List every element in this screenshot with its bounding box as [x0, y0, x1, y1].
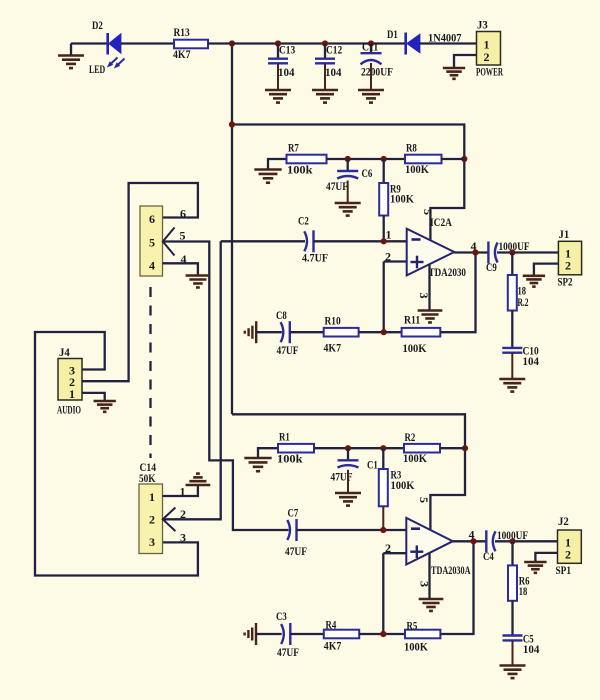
wire R6 to C5 — [511, 601, 513, 636]
op-amp U upper TDA2030 — [407, 229, 455, 276]
capacitor C9 — [487, 242, 489, 264]
wire C2 input — [221, 240, 305, 242]
ground under C11 — [358, 90, 384, 103]
svg-text:R7: R7 — [288, 141, 299, 155]
svg-text:2: 2 — [565, 548, 571, 562]
wire to R6 — [511, 541, 513, 565]
svg-text:C7: C7 — [288, 506, 299, 520]
wire C11 to ground — [370, 63, 372, 90]
resistor R.2 — [508, 275, 517, 311]
wire R13 to rail junction — [208, 42, 232, 44]
resistor R5 — [405, 630, 440, 639]
svg-text:4K7: 4K7 — [324, 341, 342, 355]
ground at J4 — [94, 401, 116, 412]
svg-text:C2: C2 — [298, 214, 309, 228]
ground at J2 — [524, 562, 546, 573]
svg-text:3: 3 — [418, 581, 432, 587]
ground under C5 — [500, 666, 526, 679]
node R2 supply junction — [462, 445, 468, 451]
node C6 tap — [345, 156, 351, 162]
wire C5 to ground — [512, 640, 514, 665]
ground at pot pin4 — [186, 276, 211, 288]
wire R4 to R5 — [359, 633, 405, 635]
svg-text:4: 4 — [149, 259, 155, 273]
svg-text:3: 3 — [417, 293, 431, 299]
wiper arrow lower — [163, 508, 176, 532]
wire pin 3 to ground — [428, 264, 430, 310]
svg-text:D1: D1 — [387, 27, 398, 41]
capacitor C2 — [312, 230, 314, 252]
node top rail junction — [229, 40, 235, 46]
svg-text:1: 1 — [69, 387, 75, 401]
svg-text:2200UF: 2200UF — [361, 65, 393, 79]
wire R7 to R8 — [327, 158, 406, 160]
svg-text:6: 6 — [180, 207, 186, 221]
svg-text:R.2: R.2 — [518, 295, 529, 309]
svg-text:R11: R11 — [404, 313, 420, 327]
svg-text:2: 2 — [565, 259, 571, 273]
svg-text:J1: J1 — [559, 227, 570, 241]
wire D1 to J3 pin1 — [420, 42, 477, 44]
wire C8 to R10 — [290, 331, 324, 333]
potentiometer upper section — [140, 206, 163, 276]
svg-text:LED: LED — [89, 62, 105, 76]
wire supply bus — [231, 44, 233, 415]
capacitor C1 — [347, 448, 349, 460]
node R9 tap — [381, 156, 387, 162]
svg-text:5: 5 — [149, 236, 155, 250]
svg-text:100k: 100k — [287, 163, 313, 177]
node zobel tap lower — [509, 538, 515, 544]
wire R3 to pin1 node — [382, 506, 384, 530]
svg-text:47UF: 47UF — [285, 544, 307, 558]
wire J4 pin3 loop — [35, 332, 198, 576]
wire output pin 4 upper — [454, 251, 488, 253]
node C13 tap — [275, 40, 281, 46]
svg-text:1: 1 — [180, 485, 186, 499]
capacitor C3 — [289, 623, 291, 645]
svg-text:104: 104 — [523, 642, 540, 656]
ground at C8 — [245, 321, 256, 343]
wire pot pin4 to ground — [163, 263, 198, 275]
wire C10 to ground — [511, 353, 513, 379]
wire LED to R13 — [121, 42, 174, 44]
svg-text:47UF: 47UF — [277, 343, 299, 357]
wire pin 3 to ground lower — [428, 554, 430, 599]
svg-text:4K7: 4K7 — [173, 47, 191, 61]
dashed pot link — [149, 287, 151, 458]
wire lower supply rail — [232, 414, 465, 529]
potentiometer lower section — [139, 484, 163, 554]
svg-text:104: 104 — [325, 65, 342, 79]
svg-text:2: 2 — [385, 250, 391, 264]
wire J2 pin2 to ground — [535, 553, 557, 562]
svg-text:C1: C1 — [367, 458, 378, 472]
ground under C1 — [335, 493, 361, 506]
ground at C3 — [245, 623, 256, 645]
wire C12 to ground — [324, 63, 326, 89]
capacitor C11 — [370, 44, 372, 53]
svg-text:C4: C4 — [483, 549, 494, 563]
svg-text:47UF: 47UF — [277, 645, 299, 659]
LED arrows — [110, 58, 118, 66]
svg-text:J3: J3 — [477, 18, 488, 32]
wire to R.2 — [511, 253, 513, 276]
svg-text:R10: R10 — [325, 314, 341, 328]
wire C1 to ground — [347, 470, 349, 493]
diode D2 LED — [106, 33, 109, 55]
wiper arrow upper — [163, 228, 175, 256]
node output lower — [470, 538, 476, 544]
wire R1 to ground — [258, 448, 278, 457]
svg-text:SP2: SP2 — [558, 275, 573, 289]
svg-text:C12: C12 — [326, 43, 342, 57]
svg-text:AUDIO: AUDIO — [57, 403, 81, 417]
svg-text:C11: C11 — [362, 40, 378, 54]
svg-text:TDA2030A: TDA2030A — [431, 563, 471, 577]
wire R2 to supply — [440, 447, 465, 449]
wire R8 to supply — [442, 158, 465, 160]
wire wiper upper to C7 — [163, 242, 289, 531]
svg-text:100K: 100K — [404, 640, 429, 654]
resistor R1 — [278, 444, 314, 453]
node zobel tap upper — [509, 249, 515, 255]
wire R.2 to C10 — [511, 311, 513, 348]
wire ground to LED D2 — [71, 42, 107, 44]
wire J4 pin1 to ground — [82, 393, 105, 401]
node C1 tap — [345, 445, 351, 451]
capacitor C10 — [502, 347, 522, 349]
wire pot pin1 to ground — [163, 486, 198, 497]
wire pin 2 lower — [383, 552, 406, 554]
svg-text:2: 2 — [385, 541, 391, 555]
op-amp U lower TDA2030A — [406, 518, 453, 565]
wire ground to C8 — [256, 331, 282, 333]
svg-text:100K: 100K — [391, 478, 416, 492]
wire R11 to output — [440, 253, 475, 333]
svg-text:C8: C8 — [276, 308, 287, 322]
node pin1 R9 junction — [381, 238, 387, 244]
svg-text:100K: 100K — [390, 192, 415, 206]
ground at J3 — [443, 68, 465, 79]
svg-text:R13: R13 — [174, 25, 190, 39]
svg-text:47UF: 47UF — [326, 179, 348, 193]
resistor R6 — [508, 565, 517, 600]
node bus upper rail junction — [229, 121, 235, 127]
wire output pin 4 lower — [453, 540, 487, 542]
svg-text:2: 2 — [484, 50, 490, 64]
ground at pot pin1 inverted — [186, 474, 211, 485]
resistor R10 — [324, 328, 359, 337]
wire top rail to D1 — [232, 42, 406, 44]
ground under C12 — [312, 90, 338, 103]
node pin1 R3 junction — [380, 527, 386, 533]
wire J1 pin2 to ground — [534, 264, 559, 276]
capacitor C4 — [485, 530, 487, 552]
wire C7 to pin 1 — [297, 529, 407, 531]
diode D1 1N4007 — [404, 33, 407, 55]
capacitor C7 — [295, 519, 297, 541]
resistor R13 — [174, 40, 208, 49]
svg-text:4.7UF: 4.7UF — [302, 251, 328, 265]
connector J3 — [477, 32, 501, 66]
node output upper — [472, 249, 478, 255]
svg-text:C9: C9 — [486, 260, 497, 274]
svg-text:J4: J4 — [59, 345, 70, 359]
resistor R7 — [287, 155, 327, 164]
ground at pin 3 upper — [418, 311, 443, 323]
connector J4 — [58, 359, 82, 401]
wire R5 to output — [440, 541, 473, 634]
capacitor C6 — [347, 159, 349, 171]
node R3 tap — [380, 445, 386, 451]
node R8 supply junction — [461, 156, 467, 162]
svg-text:R4: R4 — [326, 618, 337, 632]
resistor R3 — [382, 448, 384, 469]
ground left of R7 — [254, 170, 281, 183]
wire upper supply rail — [232, 125, 464, 241]
svg-text:R2: R2 — [405, 430, 416, 444]
wire R9 to pin1 node — [383, 216, 385, 242]
capacitor C8 — [289, 321, 291, 343]
capacitor C12 — [324, 44, 326, 59]
connector J2 — [558, 530, 582, 563]
svg-text:5: 5 — [417, 497, 431, 503]
svg-text:R8: R8 — [406, 141, 417, 155]
wire C6 to ground — [347, 181, 349, 203]
connector J1 — [558, 241, 581, 274]
svg-text:C3: C3 — [276, 609, 287, 623]
svg-text:1: 1 — [386, 228, 392, 242]
wire J3 pin2 to ground — [454, 55, 477, 68]
resistor R9 — [383, 159, 385, 183]
svg-text:SP1: SP1 — [556, 563, 572, 577]
svg-text:2: 2 — [149, 513, 155, 527]
node feedback junction lower — [380, 631, 386, 637]
wire pin 2 upper — [384, 260, 407, 262]
wire pin2 to feedback — [383, 262, 385, 333]
wire C13 to ground — [277, 63, 279, 89]
node C11 tap — [368, 40, 374, 46]
svg-text:C6: C6 — [362, 166, 373, 180]
svg-text:100K: 100K — [405, 162, 430, 176]
svg-text:100K: 100K — [403, 341, 428, 355]
svg-text:R5: R5 — [407, 619, 418, 633]
wire C9 to J1 — [497, 251, 558, 253]
wire ground to C3 — [256, 633, 282, 635]
svg-text:4K7: 4K7 — [324, 639, 342, 653]
svg-text:100k: 100k — [277, 452, 303, 466]
ground under C10 — [499, 379, 525, 392]
svg-text:3: 3 — [180, 531, 186, 545]
svg-text:R1: R1 — [279, 430, 290, 444]
svg-text:1: 1 — [149, 490, 155, 504]
wire wiper lower to C2 — [163, 241, 221, 519]
node feedback junction — [381, 329, 387, 335]
svg-text:104: 104 — [278, 65, 295, 79]
ground left of R1 — [244, 458, 271, 471]
wire R10 to R11 — [359, 331, 402, 333]
resistor R11 — [402, 328, 441, 337]
resistor R8 — [405, 155, 442, 164]
ground under C13 — [265, 90, 291, 103]
node C12 tap — [322, 40, 328, 46]
ground under C6 — [335, 203, 361, 216]
svg-text:3: 3 — [149, 535, 155, 549]
resistor R4 — [324, 630, 359, 639]
svg-text:IC2A: IC2A — [430, 215, 452, 229]
svg-text:100K: 100K — [403, 451, 428, 465]
svg-text:TDA2030: TDA2030 — [429, 265, 467, 279]
wire J4 pin2 loop — [82, 183, 198, 381]
ground at pin 3 lower — [419, 599, 444, 611]
svg-text:C13: C13 — [279, 43, 295, 57]
svg-text:47UF: 47UF — [331, 470, 353, 484]
ground at J1 — [523, 276, 545, 287]
svg-text:50K: 50K — [139, 471, 156, 485]
svg-text:POWER: POWER — [476, 65, 503, 79]
resistor R2 — [404, 444, 440, 453]
wire C2 to pin 1 — [314, 240, 407, 242]
svg-text:104: 104 — [523, 354, 540, 368]
wire C3 to R4 — [290, 633, 324, 635]
svg-text:18: 18 — [519, 584, 528, 598]
wire R7 to ground — [268, 159, 287, 169]
wire pin2 to feedback lower — [382, 553, 384, 634]
ground top-left — [70, 44, 72, 56]
capacitor C5 — [503, 634, 523, 636]
wire R1 to R2 — [314, 447, 404, 449]
wire C4 to J2 — [495, 540, 558, 542]
svg-text:6: 6 — [149, 212, 155, 226]
capacitor C13 — [277, 44, 279, 59]
svg-text:D2: D2 — [92, 18, 103, 32]
svg-text:J2: J2 — [558, 514, 569, 528]
